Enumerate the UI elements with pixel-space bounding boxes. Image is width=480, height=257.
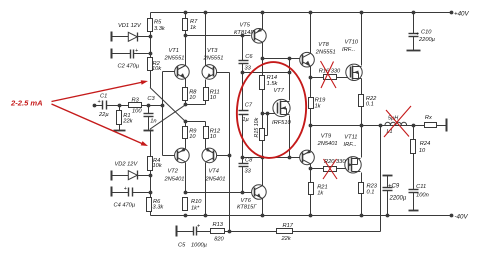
cross-out R16 (321, 61, 337, 88)
resistor R6 (147, 198, 165, 212)
ground C11 (409, 210, 419, 212)
node rail R7 (184, 11, 188, 15)
node C7 bottom (241, 156, 245, 160)
wire VT10 drain to rail (361, 13, 363, 66)
resistor R7 (183, 19, 199, 32)
svg-text:+C9: +C9 (388, 184, 400, 190)
capacitor C2 leads (112, 53, 151, 55)
svg-text:VD1 12V: VD1 12V (118, 23, 142, 29)
transistor VT8 (300, 42, 336, 67)
svg-text:+40V: +40V (454, 10, 469, 17)
cross-out R20 (323, 159, 337, 179)
svg-text:VT8: VT8 (318, 42, 329, 48)
node input bases (161, 104, 165, 108)
svg-text:3.3k: 3.3k (154, 26, 166, 32)
svg-text:VT11: VT11 (344, 135, 357, 141)
wire compensation cap chain C6-C7-C8 (242, 36, 244, 193)
svg-text:2200µ: 2200µ (418, 37, 436, 43)
wire R24-C11 column (413, 126, 415, 211)
node R14 bottom gate (261, 112, 265, 116)
wire R16 gate line (311, 77, 351, 79)
svg-text:C5: C5 (178, 243, 186, 249)
resistor R21 (309, 183, 328, 197)
wire -40V bottom rail (151, 215, 452, 217)
resistor R13 (211, 222, 225, 243)
wire VT6 base line (186, 192, 254, 194)
svg-text:R13: R13 (213, 222, 224, 228)
wire left column lower (R4-VD2-C4-R6 chain) (150, 130, 152, 216)
node VD2 junction (149, 174, 153, 178)
zener VD2 (112, 162, 139, 181)
svg-text:C2 470µ: C2 470µ (118, 64, 140, 70)
svg-text:IRF...: IRF... (344, 142, 357, 148)
ground C10 (407, 50, 421, 52)
svg-text:+: + (197, 224, 200, 230)
svg-text:10: 10 (189, 134, 196, 140)
node VT2 collector R10 (184, 191, 188, 195)
node VT7 drain tie (288, 71, 292, 75)
transistor VT3 (202, 48, 223, 79)
mosfet VT7 (272, 88, 291, 126)
node VD1 junction (149, 35, 153, 39)
node VT7 source (288, 156, 292, 160)
svg-text:R10: R10 (191, 199, 202, 205)
node VT7 drain top (288, 57, 292, 61)
node upper emitters (184, 103, 188, 107)
svg-text:VT2: VT2 (168, 169, 179, 175)
svg-text:10: 10 (210, 134, 217, 140)
wire R20 gate line (311, 168, 350, 170)
wire VT11 source up (361, 126, 363, 158)
wire VT6 collector up (262, 158, 264, 186)
capacitor C11 (408, 184, 429, 199)
svg-text:2N5551: 2N5551 (203, 55, 224, 61)
label C7 (242, 103, 253, 124)
svg-text:22k: 22k (122, 118, 133, 124)
wire C10 column (413, 13, 415, 51)
inductor L1 (385, 116, 407, 136)
resistor R16 (319, 69, 341, 80)
wire VT7 drain vertical (289, 59, 291, 101)
svg-text:VT6: VT6 (241, 198, 252, 204)
resistor R11 (204, 88, 220, 102)
resistor R17 (277, 223, 294, 242)
svg-text:1000µ: 1000µ (191, 243, 208, 249)
node R1 top (118, 104, 122, 108)
node VT5 collector (261, 57, 265, 61)
svg-text:C11: C11 (416, 184, 426, 190)
wire VT1 emitter to R8 (185, 79, 187, 88)
resistor R8 (183, 88, 198, 102)
node C2 junction (149, 52, 153, 56)
resistor R10 (183, 198, 203, 212)
resistor Rx (425, 115, 437, 128)
wire R21 column (310, 169, 312, 216)
wire input line (95, 105, 163, 107)
capacitor C10 (408, 30, 436, 44)
svg-text:VT5: VT5 (240, 23, 251, 29)
svg-text:VD2 12V: VD2 12V (115, 162, 139, 168)
node VT9 collector (309, 167, 313, 171)
wire VT11 drain / R23 (361, 173, 363, 216)
capacitor C6 (237, 54, 253, 72)
node rail C9 (386, 214, 390, 218)
node feedback junction (228, 230, 232, 234)
svg-text:-40V: -40V (455, 213, 469, 220)
svg-text:10: 10 (210, 95, 217, 101)
svg-text:1µ: 1µ (242, 117, 249, 123)
svg-text:2N5551: 2N5551 (315, 49, 336, 55)
svg-text:VT3: VT3 (207, 48, 218, 54)
annotation arrow to R2 (52, 80, 149, 101)
resistor R9 (183, 127, 198, 141)
wire input bases vertical (163, 72, 179, 156)
svg-text:2N5401: 2N5401 (317, 141, 338, 147)
zener VD1 leads (112, 36, 151, 38)
svg-text:2N5551: 2N5551 (164, 55, 185, 61)
wire R14-R15 column (262, 59, 264, 158)
resistor R5 (148, 19, 166, 33)
mosfet VT11 (344, 135, 362, 174)
wire VT7 source vertical (289, 116, 291, 158)
wire VT4 collector to bottom rail (205, 163, 207, 216)
node VT1 collector (184, 34, 188, 38)
node output R22 (360, 124, 364, 128)
svg-text:1k: 1k (317, 191, 324, 197)
svg-text:IRF510: IRF510 (272, 120, 291, 126)
resistor R22 (359, 95, 378, 108)
svg-text:VT9: VT9 (321, 134, 332, 140)
wire feedback bottom line (177, 231, 381, 233)
wire feedback riser to output (380, 126, 382, 232)
svg-text:2N5401: 2N5401 (164, 176, 185, 182)
mosfet VT10 (342, 40, 362, 81)
svg-text:IRF...: IRF... (342, 47, 355, 53)
cross-out L1 (384, 106, 411, 137)
svg-text:C10: C10 (421, 30, 432, 36)
node C3 top (147, 104, 151, 108)
annotation arrow to R4 (52, 104, 149, 146)
svg-text:10k: 10k (152, 66, 162, 72)
svg-text:1.5k: 1.5k (267, 81, 279, 87)
wire VT9 emitter up (310, 126, 312, 151)
wire diagonal B (upper pair emitter node to R4) (150, 105, 185, 129)
capacitor C1 (98, 94, 110, 119)
svg-text:22k: 22k (281, 236, 292, 242)
svg-text:2-2.5 mA: 2-2.5 mA (10, 99, 43, 108)
node rail C10 (412, 11, 416, 15)
transistor VT9 (300, 134, 338, 165)
resistor R14 (260, 75, 279, 90)
node R15 bottom (261, 156, 265, 160)
svg-text:10: 10 (189, 95, 196, 101)
svg-text:1n: 1n (150, 119, 156, 125)
wire left column upper (R5-VD1-C2-R2 chain) (150, 13, 152, 88)
svg-text:+: + (124, 186, 127, 192)
wire VT8 collector to rail (310, 13, 312, 54)
svg-text:R24: R24 (420, 141, 430, 147)
node C4 junction (149, 191, 153, 195)
resistor R20 (324, 159, 347, 172)
transistor VT5 (234, 23, 266, 44)
wire upper pair emitter resistor bottoms (186, 101, 206, 105)
transistor VT6 (237, 185, 266, 211)
wire VT3 collector to rail (205, 13, 207, 66)
svg-text:1k: 1k (190, 25, 197, 31)
svg-text:C6: C6 (245, 54, 253, 60)
svg-text:КТ815Г: КТ815Г (237, 205, 257, 211)
svg-text:VT1: VT1 (169, 48, 179, 54)
svg-text:R5: R5 (154, 20, 162, 26)
svg-text:2200µ: 2200µ (389, 196, 407, 202)
node output R24 (412, 124, 416, 128)
resistor R19 (309, 98, 327, 110)
wire R19 column (310, 78, 312, 126)
svg-text:C1: C1 (100, 94, 107, 100)
svg-text:10k: 10k (153, 163, 163, 169)
svg-text:Rx: Rx (425, 115, 433, 121)
capacitor C5 (178, 224, 208, 249)
wire lower pair emitter node line (186, 122, 206, 127)
svg-text:+: + (135, 48, 138, 54)
resistor R4 (148, 157, 163, 171)
wire feedback vertical (VT3/VT4 bases) (214, 73, 230, 232)
svg-text:+: + (98, 99, 101, 105)
node rail VT8 (309, 11, 313, 15)
wire R15 wiper (265, 114, 268, 136)
node VT8 emitter (309, 76, 313, 80)
transistor VT4 (202, 148, 225, 182)
node rail end bottom (450, 214, 454, 218)
svg-text:0.1: 0.1 (367, 190, 375, 196)
wire output line (311, 125, 447, 127)
svg-text:1k: 1k (315, 104, 322, 110)
ground C9 (383, 175, 393, 177)
node rail R21 (309, 214, 313, 218)
resistor R15 trimmer (254, 117, 265, 140)
wire VT5 emitter to rail (262, 13, 264, 30)
resistor R3 (129, 98, 143, 115)
transistor VT1 (164, 48, 190, 79)
node lower emitters (184, 120, 188, 124)
wire C9 column (387, 176, 389, 216)
node rail R23 (360, 214, 364, 218)
node C6 bottom (241, 71, 245, 75)
wire VAS output line to VT8 base (263, 58, 304, 60)
svg-text:33: 33 (245, 169, 252, 175)
capacitor C2 (112, 48, 140, 70)
wire VT7 gate line (263, 113, 276, 115)
wire VT5 collector down (262, 43, 264, 59)
svg-text:820: 820 (214, 237, 224, 243)
node rail R10 (184, 214, 188, 218)
resistor R2 (148, 58, 163, 73)
wire VT3 emitter to R11 (205, 80, 207, 88)
node R15 wiper (266, 112, 270, 116)
resistor R24 (411, 140, 431, 155)
svg-text:C8: C8 (245, 158, 253, 164)
wire VT2 collector down (185, 163, 187, 193)
transistor VT2 (164, 148, 190, 182)
svg-text:C4 470µ: C4 470µ (114, 203, 136, 209)
svg-text:VT7: VT7 (274, 88, 285, 94)
terminal output (446, 119, 448, 132)
svg-text:R17: R17 (283, 223, 294, 229)
wire diagonal A (R2 to lower pair emitter node) (150, 88, 185, 122)
svg-text:10: 10 (419, 148, 426, 154)
capacitor C4 leads (112, 192, 151, 194)
label -40V (455, 213, 469, 220)
capacitor C3 (143, 96, 157, 130)
zener VD2 leads (112, 175, 151, 177)
svg-text:C3: C3 (147, 96, 155, 102)
resistor R23 (359, 183, 378, 196)
node VT4 base (228, 154, 232, 158)
wire VT6 emitter to rail (262, 199, 264, 216)
svg-text:1k*: 1k* (191, 206, 200, 212)
wire VT8 emitter node (310, 67, 312, 78)
ground C3 (144, 130, 154, 132)
node rail VT5 (261, 11, 265, 15)
capacitor C4 (112, 186, 136, 209)
wire VT5 base line (186, 35, 251, 37)
node input (93, 104, 97, 108)
wire VT4 emitter to R12 (205, 139, 207, 149)
svg-text:R3: R3 (132, 98, 140, 104)
resistor R12 (204, 127, 221, 141)
wire VT10 source / R22 (361, 79, 363, 126)
svg-text:2N5401: 2N5401 (205, 176, 226, 182)
svg-text:100: 100 (132, 109, 142, 115)
node rail VT3 (204, 11, 208, 15)
label +40V (454, 10, 469, 17)
wire +40V top rail (151, 12, 452, 14)
node rail VT4 (204, 214, 208, 218)
capacitor C9 (382, 184, 407, 202)
capacitor C8 (237, 158, 253, 175)
wire bias bottom line (243, 157, 304, 159)
node rail end top (450, 11, 454, 15)
svg-text:22µ: 22µ (98, 112, 109, 118)
ground R1 (114, 130, 126, 132)
node VT9 emitter out (309, 124, 313, 128)
zener VD1 (112, 23, 142, 42)
capacitor C7 (237, 111, 249, 115)
resistor R1 (117, 106, 134, 131)
svg-text:100n: 100n (416, 193, 429, 199)
svg-text:0.1: 0.1 (366, 102, 374, 108)
wire VT2 emitter to R9 (185, 139, 187, 149)
node C6 top (241, 34, 245, 38)
annotation current label (10, 99, 43, 108)
wire bias top tie (C7 node to VT7 drain) (243, 72, 290, 74)
terminal C5 ground (176, 226, 178, 237)
node VT6 collector (261, 214, 265, 218)
annotation ellipse bias block (233, 59, 310, 161)
svg-text:C7: C7 (245, 103, 253, 109)
svg-text:VT4: VT4 (209, 169, 219, 175)
node C8 bottom (241, 191, 245, 195)
node rail VT10 (360, 11, 364, 15)
node output feedback (379, 124, 383, 128)
svg-text:3.3k: 3.3k (153, 205, 165, 211)
wire VT9 collector node (310, 164, 312, 169)
svg-text:R15 10k: R15 10k (254, 117, 260, 137)
svg-text:33: 33 (245, 66, 252, 72)
svg-text:VT10: VT10 (345, 40, 359, 46)
wire R7 column / VT1 collector (185, 13, 187, 66)
